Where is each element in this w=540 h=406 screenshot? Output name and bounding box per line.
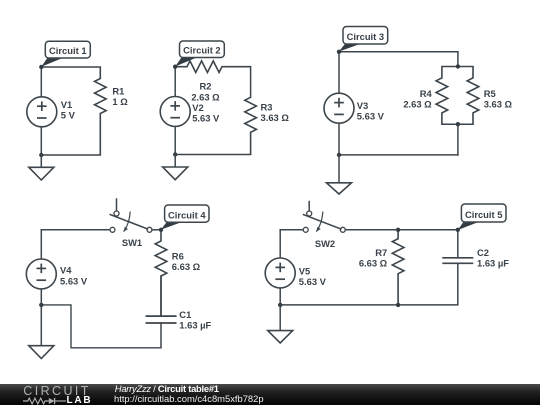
ground symbol (circuit 2) [174,155,176,168]
svg-text:SW1: SW1 [122,237,142,248]
footer author / title [115,384,219,393]
node: circuit 2 bottom-left junction [173,152,177,156]
voltage source V1 [27,97,57,127]
switch SW1 pole terminal [110,227,115,232]
svg-text:Circuit 3: Circuit 3 [347,31,385,42]
circuit 2: wire V2 bottom to bottom rail [174,127,176,155]
svg-text:1 Ω: 1 Ω [112,96,128,107]
circuit 3: bottom rail wire [339,154,458,156]
node: circuit 3 top-left junction [337,50,341,54]
node: circuit 5 R7 bottom junction [396,303,400,307]
svg-text:1.63 µF: 1.63 µF [179,320,211,331]
circuit 5: top rail wire switch to capacitor [345,229,458,231]
node: circuit 5 C2 top junction [456,228,460,232]
switch SW1 arrow [124,212,131,232]
circuit 1: bottom rail wire [41,154,100,156]
footer bar [0,384,540,405]
footer url [114,394,264,403]
svg-text:R6: R6 [172,250,184,261]
circuit 1: top rail wire [41,66,100,68]
voltage source V2 [160,97,190,127]
circuit 2: right wire down to R3 [250,67,252,98]
svg-text:Circuit 5: Circuit 5 [465,209,503,220]
node: circuit 4 bottom-left junction [39,303,43,307]
circuit 3: wire V3 bottom to bottom rail [338,123,340,155]
callout Circuit 4 [161,221,184,229]
switch SW1 right terminal [147,227,152,232]
svg-text:2.63 Ω: 2.63 Ω [191,91,220,102]
svg-text:SW2: SW2 [315,238,335,249]
circuit 3: top rail wire [339,51,458,53]
node: parallel block bottom junction [456,122,460,126]
capacitor C1 [160,276,162,316]
circuit 5: wire V5 bottom to bottom node [279,288,281,305]
voltage source V4 [26,259,56,289]
switch SW2 top throw stub [308,202,310,211]
switch SW1 throw terminal [114,211,119,216]
capacitor C2 [457,230,459,258]
voltage source V5 [265,258,295,288]
callout Circuit 3 [339,43,362,51]
svg-text:R7: R7 [375,247,387,258]
ground symbol (circuit 5) [279,305,281,331]
svg-text:5.63 V: 5.63 V [299,276,327,287]
voltage source V3 [324,93,354,123]
circuit 3: feed wire to parallel block [457,52,459,67]
circuit 5: bottom rail wire [280,304,458,306]
node: circuit 3 bottom-left junction [337,153,341,157]
svg-text:R2: R2 [200,81,212,92]
ground symbol (circuit 1) [40,155,42,167]
resistor R5 [467,67,479,125]
switch SW1 lever [110,215,147,229]
svg-text:V3: V3 [357,100,368,111]
CircuitLab logo: CIRCUIT [23,385,91,398]
node: circuit 5 bottom-left junction [278,303,282,307]
circuit 5: left wire down to V5 [279,230,281,258]
svg-text:V1: V1 [61,99,72,110]
switch SW2 lever [304,215,341,229]
circuit 3: parallel top bracket wire [442,66,473,68]
node: circuit 4 switch output junction [159,228,163,232]
svg-text:1.63 µF: 1.63 µF [477,258,509,269]
svg-text:6.63 Ω: 6.63 Ω [172,261,201,272]
svg-text:2.63 Ω: 2.63 Ω [403,99,432,110]
svg-text:C2: C2 [477,247,489,258]
svg-text:V4: V4 [60,265,72,276]
svg-text:Circuit 4: Circuit 4 [168,209,206,220]
resistor R6 [155,230,167,316]
svg-text:5.63 V: 5.63 V [357,111,385,122]
circuit 1: wire V1 bottom to bottom rail [40,127,42,155]
circuit 4: wire switch to node [152,229,161,231]
circuit 3: wire parallel block to bottom rail [457,124,459,155]
circuit 1: left wire (node to V1 top) [40,67,42,97]
ground symbol (circuit 3) [338,155,340,183]
svg-text:6.63 Ω: 6.63 Ω [359,258,388,269]
ground symbol (circuit 4) [40,305,42,346]
svg-text:Circuit 2: Circuit 2 [183,45,221,56]
node: circuit 2 top-left junction [173,65,177,69]
CircuitLab logo: LAB [67,396,93,406]
resistor R1 [95,67,107,155]
callout Circuit 2 [175,57,198,67]
resistor R3 [245,97,257,154]
svg-text:R3: R3 [261,101,273,112]
resistor R2 (horizontal, top) [175,61,250,73]
svg-text:R1: R1 [112,85,124,96]
circuit 5: left rail wire to switch [280,229,303,231]
switch SW2 pole terminal [303,227,308,232]
svg-text:V5: V5 [299,265,310,276]
circuit 3: left wire (node to V3 top) [338,52,340,93]
node: circuit 5 R7 top junction [396,228,400,232]
callout Circuit 5 [458,221,481,230]
node: circuit 1 bottom-left junction [39,153,43,157]
resistor R4 [436,67,448,125]
resistor R7 [392,230,404,304]
circuit 2: left wire (node to V2 top) [174,67,176,97]
svg-text:C1: C1 [179,309,191,320]
svg-text:5.63 V: 5.63 V [192,113,220,124]
node: parallel block top junction [456,64,460,68]
svg-text:R4: R4 [420,88,433,99]
circuit 4: bottom jog wire [41,305,161,348]
switch SW2 throw terminal [307,211,312,216]
svg-text:V2: V2 [192,102,203,113]
callout Circuit 1 [41,57,64,67]
node: circuit 1 top-left junction [39,65,43,69]
circuit 3: parallel bottom bracket wire [442,123,473,125]
svg-text:3.63 Ω: 3.63 Ω [484,99,513,110]
circuit 4: wire V4 bottom to bottom node [40,289,42,305]
switch SW1 top throw stub [116,199,118,211]
svg-text:Circuit 1: Circuit 1 [49,45,87,56]
switch SW2 arrow [316,212,323,232]
circuit 4: left wire down to V4 [40,230,42,259]
svg-text:5 V: 5 V [61,110,76,121]
CircuitLab logo: resistor + diode symbol [23,397,67,405]
svg-text:5.63 V: 5.63 V [60,275,88,286]
switch SW2 right terminal [340,227,345,232]
svg-text:R5: R5 [484,88,496,99]
circuit 4: left rail wire to switch [41,229,110,231]
circuit 2: bottom rail wire [175,154,250,156]
svg-text:3.63 Ω: 3.63 Ω [261,112,290,123]
